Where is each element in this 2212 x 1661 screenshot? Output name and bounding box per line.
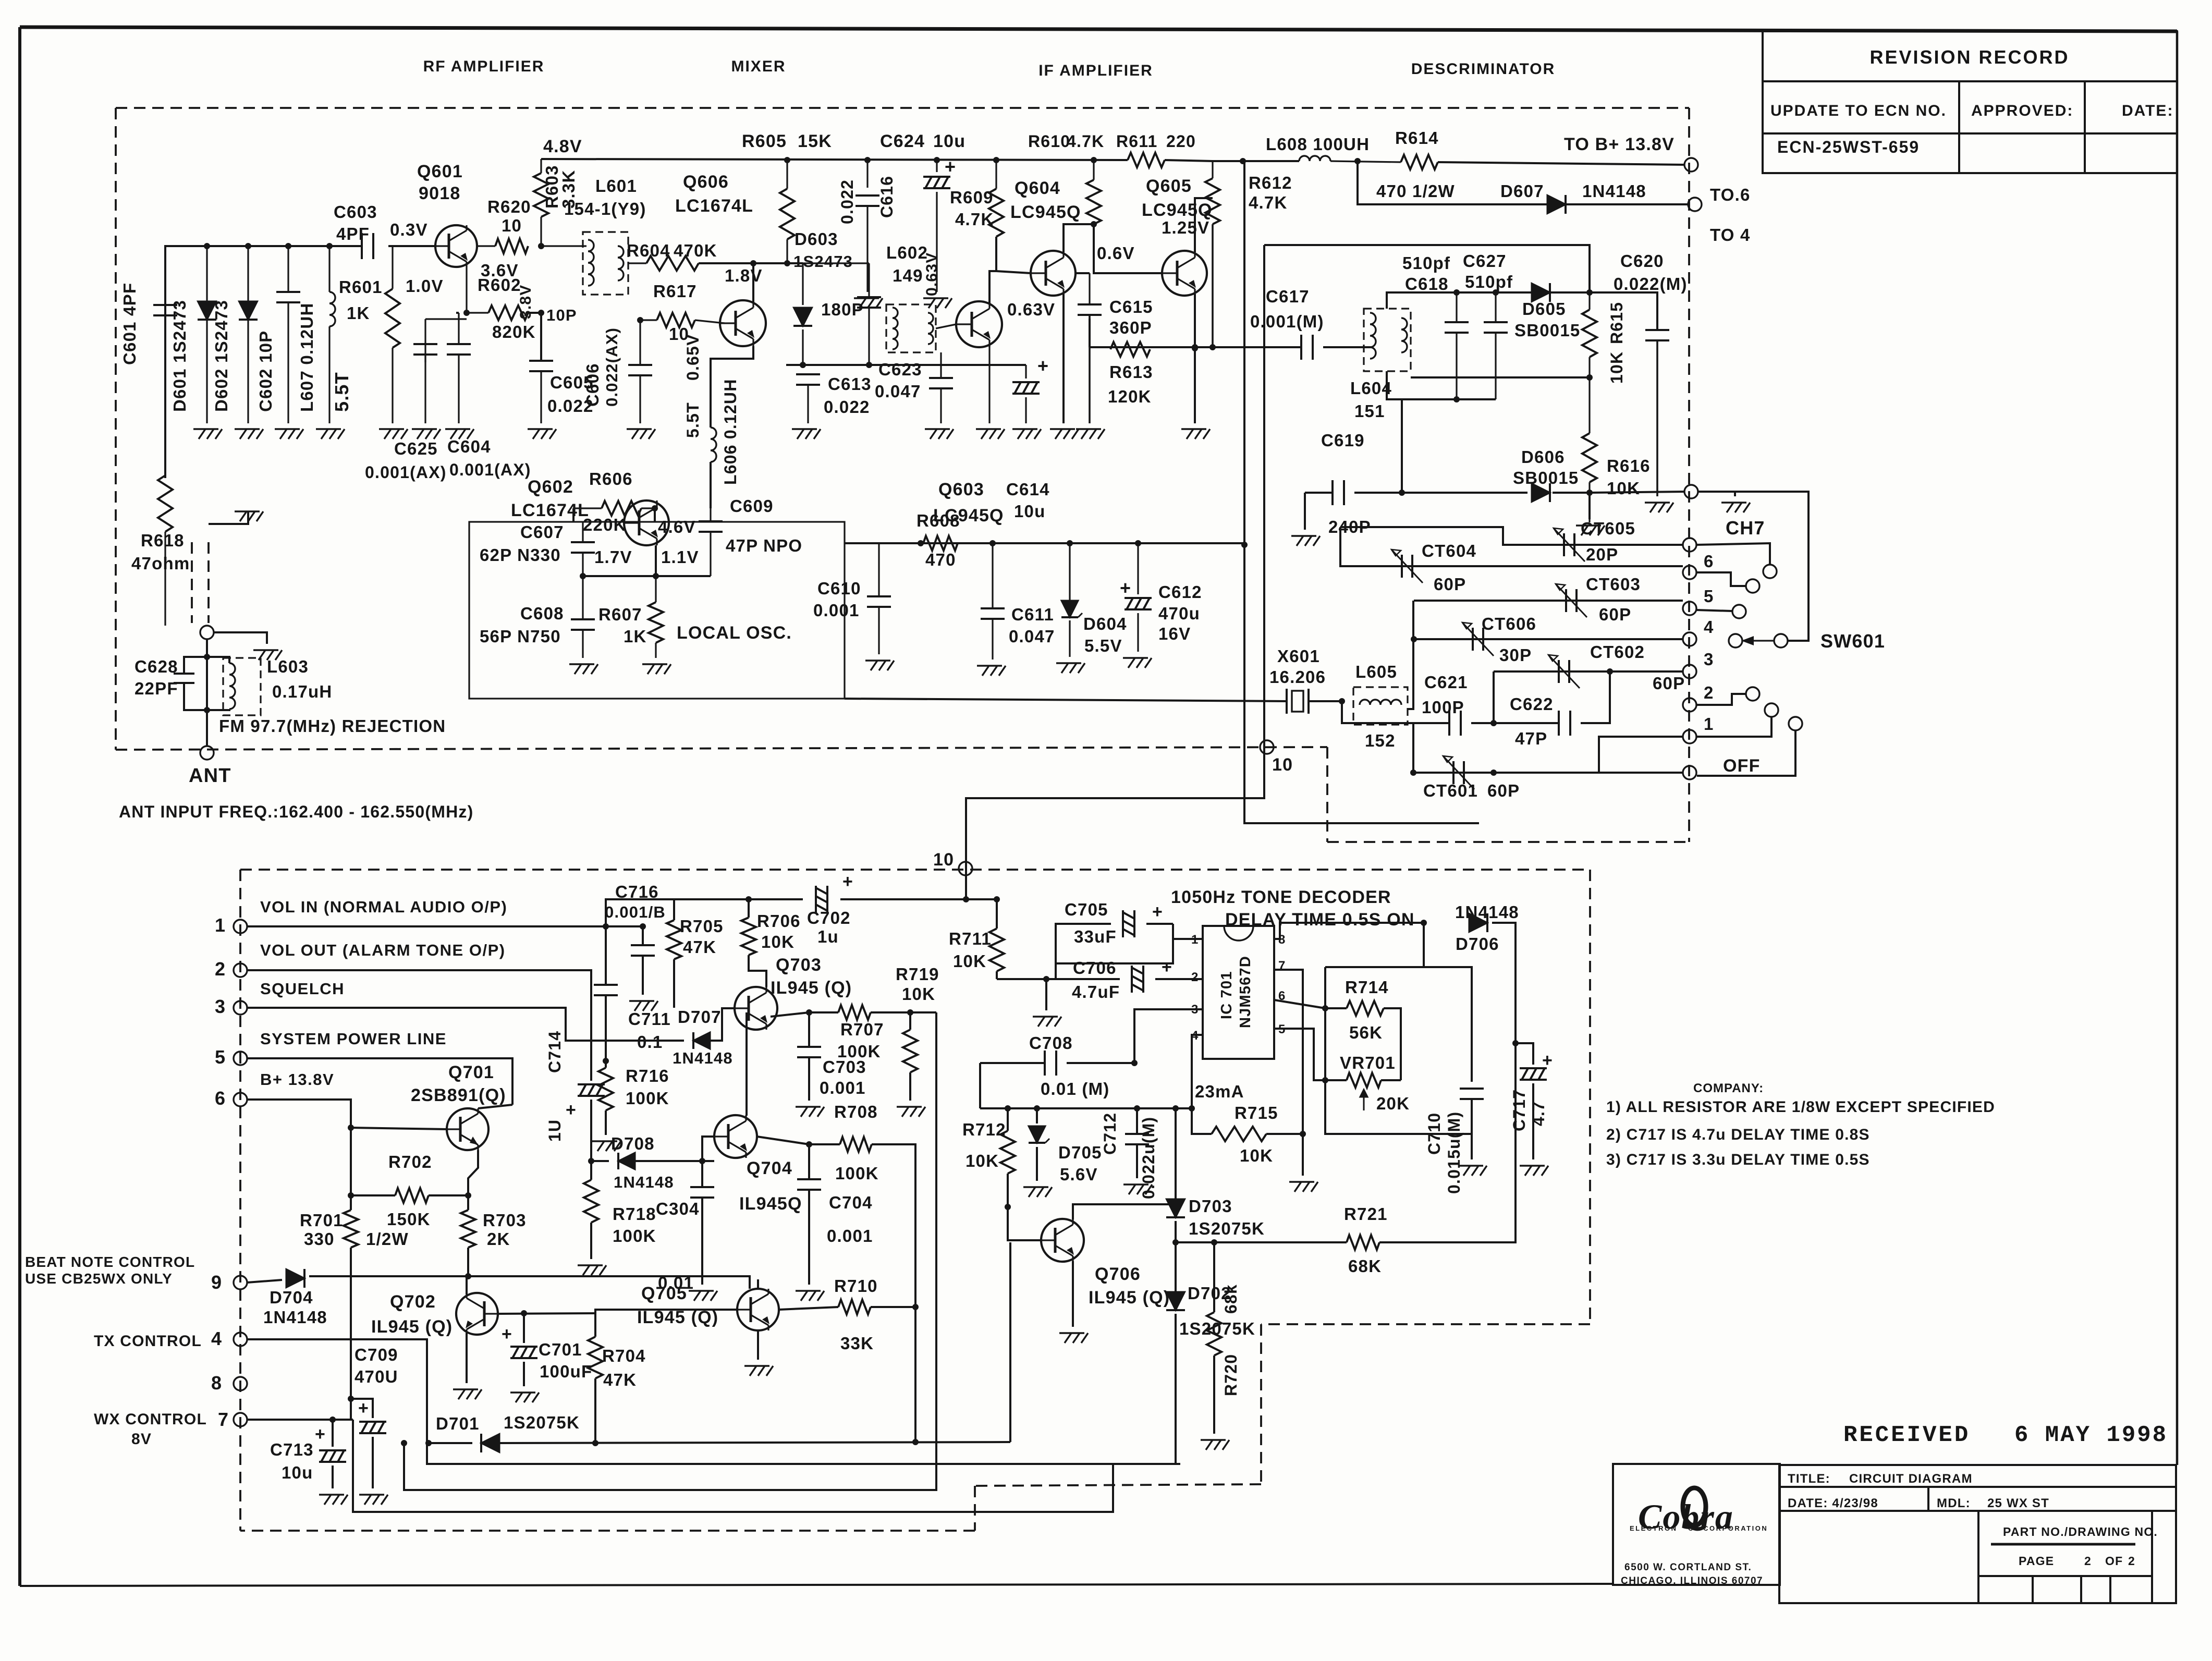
wire SYSTEM POWER LINE [247, 1058, 512, 1105]
ground for C713 [319, 1495, 348, 1505]
capacitor C621 [1413, 722, 1449, 724]
svg-text:10K: 10K [1240, 1146, 1273, 1165]
svg-text:VOL OUT (ALARM TONE O/P): VOL OUT (ALARM TONE O/P) [260, 941, 506, 959]
svg-text:0.022(AX): 0.022(AX) [603, 327, 621, 407]
ground for D602 [235, 429, 263, 439]
transistor Q702 [456, 1293, 498, 1335]
title block [1613, 1464, 2176, 1603]
svg-text:47ohm: 47ohm [131, 554, 190, 573]
svg-text:10u: 10u [933, 131, 966, 151]
ground for C611 [977, 666, 1006, 676]
transformer L604 [1364, 309, 1411, 371]
svg-text:C602 10P: C602 10P [256, 331, 275, 412]
svg-text:0.65V: 0.65V [683, 334, 702, 381]
svg-text:C625: C625 [394, 439, 438, 458]
capacitor C716 [642, 926, 644, 945]
resistor R710 [779, 1307, 838, 1310]
sw outer contact 2 [1696, 694, 1745, 705]
transistor Q605 [1162, 251, 1207, 296]
wire D701 bus riser [1009, 1242, 1011, 1442]
resistor R615 [1588, 292, 1590, 310]
svg-text:+: + [1542, 1051, 1553, 1070]
svg-text:47P NPO: 47P NPO [726, 536, 802, 555]
resistor R612 [1212, 161, 1213, 178]
resistor R610 [1093, 160, 1094, 180]
svg-text:1N4148: 1N4148 [1455, 902, 1519, 922]
svg-text:R711: R711 [949, 929, 992, 948]
diode D601 [206, 246, 207, 423]
ground for C704 [796, 1291, 824, 1301]
svg-text:Q702: Q702 [390, 1292, 436, 1312]
svg-text:4.7K: 4.7K [1249, 193, 1288, 212]
resistor R716 [598, 1068, 613, 1110]
capacitor C608 [582, 576, 583, 619]
svg-text:1.25V: 1.25V [1162, 218, 1209, 237]
resistor R602 [467, 312, 488, 313]
connector pin 1 VOL IN (NORMAL AUDIO O/P) [234, 920, 247, 933]
diode D605 [1532, 283, 1550, 301]
svg-text:Q704: Q704 [747, 1158, 792, 1178]
svg-text:WX CONTROL: WX CONTROL [94, 1411, 207, 1428]
svg-text:L607 0.12UH: L607 0.12UH [297, 303, 316, 412]
ground for C614 [1012, 429, 1041, 439]
resistor R708 [809, 1143, 840, 1145]
resistor R704 [594, 1313, 596, 1337]
svg-text:R601: R601 [339, 277, 383, 297]
wire pin7 line [247, 1419, 353, 1421]
resistor R604 [628, 262, 646, 264]
svg-text:0.001(M): 0.001(M) [1250, 312, 1324, 331]
sw outer contact OFF [1697, 731, 1795, 776]
inductor L607 [328, 246, 330, 292]
transistor Q706 [1041, 1219, 1084, 1262]
wire Q702 bottom lead [466, 1333, 468, 1383]
diode D703 [1175, 1108, 1177, 1199]
capacitor C611 [992, 543, 993, 608]
discriminator box top [1264, 245, 1590, 292]
svg-text:Q606: Q606 [683, 172, 729, 192]
svg-text:LC945Q: LC945Q [1010, 202, 1081, 222]
ground for C610 [865, 661, 894, 670]
trimmer CT601 [1452, 761, 1455, 784]
local oscillator box [469, 522, 845, 699]
svg-text:D604: D604 [1083, 614, 1127, 633]
svg-text:C709: C709 [355, 1345, 398, 1364]
resistor R609 [995, 160, 997, 189]
terminal 1 [1683, 730, 1696, 743]
terminal 6 [1683, 566, 1696, 579]
power rail 4.8V [541, 159, 1128, 160]
svg-text:IL945 (Q): IL945 (Q) [771, 978, 852, 998]
svg-text:33uF: 33uF [1074, 927, 1117, 946]
wire Q705 emitter [757, 1330, 759, 1360]
connector pin 5 SYSTEM POWER LINE [234, 1052, 247, 1065]
transistor Q701 2SB891 [447, 1108, 488, 1150]
capacitor C710 [1460, 1088, 1484, 1090]
capacitor C703 [808, 1012, 810, 1047]
svg-text:REVISION RECORD: REVISION RECORD [1869, 46, 2069, 68]
feedback box [1325, 967, 1472, 968]
svg-text:C604: C604 [447, 437, 491, 456]
node L608 out [1354, 158, 1361, 164]
svg-text:0.17uH: 0.17uH [272, 682, 332, 701]
svg-text:C606: C606 [583, 363, 602, 407]
svg-text:10K: 10K [761, 932, 795, 951]
svg-text:R615: R615 [1607, 302, 1626, 344]
svg-text:5.5T: 5.5T [683, 402, 702, 438]
svg-text:D601 1S2473: D601 1S2473 [170, 300, 189, 412]
ground for C623 [925, 429, 954, 439]
diode D606 [1532, 483, 1550, 502]
wire squelch bus vertical [935, 1012, 937, 1490]
svg-text:2K: 2K [487, 1229, 510, 1249]
wire CT606 row [1414, 638, 1683, 640]
svg-text:0.001(AX): 0.001(AX) [365, 463, 447, 482]
ground for Q605 [1181, 429, 1210, 439]
svg-text:510pf: 510pf [1402, 253, 1450, 273]
svg-text:L601: L601 [595, 176, 637, 196]
svg-text:R602: R602 [478, 275, 521, 295]
svg-text:L603: L603 [267, 657, 309, 676]
svg-text:4.7K: 4.7K [955, 210, 994, 229]
svg-text:100K: 100K [613, 1226, 656, 1245]
svg-text:X601: X601 [1277, 646, 1320, 666]
terminal 3 [1683, 665, 1696, 678]
ground for C608 [569, 664, 598, 674]
svg-text:D704: D704 [270, 1288, 313, 1307]
ground for C613 [792, 429, 821, 439]
crystal X601 [1286, 689, 1288, 714]
transistor Q603 [956, 301, 1002, 347]
svg-text:LC1674L: LC1674L [511, 500, 589, 520]
diode D706 [1469, 913, 1487, 932]
capacitor C617 [1300, 335, 1302, 360]
svg-text:4.7: 4.7 [1529, 1101, 1548, 1126]
resistor R715 [1192, 1108, 1212, 1134]
svg-text:120K: 120K [1108, 387, 1152, 406]
svg-text:C627: C627 [1463, 251, 1507, 271]
terminal 4 [1683, 632, 1696, 646]
resistor R607 [655, 576, 656, 602]
svg-text:+: + [358, 1398, 369, 1418]
svg-text:1N4148: 1N4148 [614, 1173, 674, 1191]
transistor Q705 [737, 1289, 779, 1330]
svg-text:DATE: 4/23/98: DATE: 4/23/98 [1788, 1496, 1878, 1510]
svg-text:220K: 220K [583, 515, 627, 534]
svg-text:10K: 10K [1607, 479, 1640, 498]
wire Q601 emitter [466, 267, 467, 313]
wire Q703 emitter to R707 [771, 1012, 809, 1017]
svg-text:IF AMPLIFIER: IF AMPLIFIER [1038, 62, 1153, 79]
wire pin9 line [247, 1280, 282, 1283]
svg-text:2) C717 IS 4.7u DELAY TIME 0.8: 2) C717 IS 4.7u DELAY TIME 0.8S [1606, 1126, 1870, 1143]
svg-text:CT602: CT602 [1590, 642, 1645, 662]
page border frame [20, 27, 2177, 31]
wire B+ line [247, 1100, 351, 1210]
svg-text:330: 330 [304, 1229, 335, 1249]
resistor R714 [1274, 1000, 1325, 1008]
svg-text:0.001: 0.001 [827, 1226, 873, 1245]
ground for C620 [1645, 503, 1673, 512]
wire D606 to R616 [1553, 492, 1590, 494]
svg-text:1/2W: 1/2W [366, 1229, 409, 1249]
ground for C612 [1123, 658, 1152, 668]
svg-text:R703: R703 [483, 1211, 527, 1230]
svg-text:ECN-25WST-659: ECN-25WST-659 [1777, 138, 1920, 156]
capacitor C627 [1495, 292, 1496, 322]
svg-text:C621: C621 [1424, 673, 1468, 692]
svg-text:15K: 15K [798, 131, 832, 151]
wire L604 secondary mid [1411, 376, 1590, 378]
svg-text:R620: R620 [487, 197, 531, 216]
ground for R601 [379, 429, 408, 439]
svg-text:0.022: 0.022 [824, 397, 870, 417]
capacitor C619 [1305, 492, 1333, 494]
resistor R719 [909, 1012, 911, 1030]
capacitor C601 [153, 304, 177, 306]
ground for R616 [1588, 493, 1591, 519]
svg-text:D708: D708 [611, 1134, 655, 1153]
svg-text:1S2075K: 1S2075K [1189, 1219, 1265, 1238]
node D605 out [1586, 289, 1593, 296]
wire discriminator left edge down [966, 245, 1264, 899]
svg-text:R715: R715 [1235, 1103, 1278, 1122]
svg-text:C616: C616 [877, 176, 896, 218]
wire to B+ terminal [1438, 162, 1684, 165]
svg-text:0.047: 0.047 [875, 382, 921, 401]
svg-text:R706: R706 [757, 911, 801, 931]
svg-text:R721: R721 [1344, 1204, 1388, 1224]
transformer L602 [886, 304, 936, 352]
svg-text:R705: R705 [680, 917, 724, 936]
capacitor C625 [424, 319, 426, 362]
svg-text:10u: 10u [1014, 502, 1045, 521]
wire local osc output [845, 699, 1287, 701]
wire L604 top to peak line [1387, 292, 1590, 309]
capacitor C628 [184, 657, 207, 674]
svg-text:PART NO./DRAWING NO.: PART NO./DRAWING NO. [2003, 1525, 2158, 1538]
svg-text:R614: R614 [1395, 128, 1439, 148]
svg-text:30P: 30P [1499, 645, 1532, 665]
resistor R605 [786, 160, 788, 189]
wire SQUELCH line [247, 1008, 684, 1041]
ground for C604 [445, 429, 474, 439]
svg-text:60P: 60P [1599, 605, 1631, 624]
wire Q701 base [351, 1128, 447, 1129]
svg-text:9: 9 [211, 1272, 222, 1293]
terminal discriminator out [1684, 485, 1698, 498]
svg-text:2: 2 [2084, 1554, 2092, 1568]
svg-text:TO B+ 13.8V: TO B+ 13.8V [1564, 135, 1675, 154]
svg-text:Q705: Q705 [641, 1284, 687, 1303]
wire IC pin8 to D706 [1274, 923, 1424, 939]
svg-text:D603: D603 [795, 229, 838, 249]
capacitor C712 [1136, 1108, 1138, 1134]
capacitor C603 [361, 233, 363, 259]
svg-text:PAGE: PAGE [2019, 1554, 2054, 1568]
svg-text:100uF: 100uF [540, 1362, 592, 1381]
wire Q701 collector [468, 1150, 478, 1195]
svg-text:C705: C705 [1065, 900, 1108, 919]
resistor R721 [1176, 1241, 1214, 1243]
inductor L603 trap [223, 658, 261, 715]
resistor R601 [392, 246, 393, 289]
svg-text:C713: C713 [270, 1440, 314, 1459]
wire R707 junction to vertical [910, 1011, 936, 1013]
wire Q706 base [1008, 1207, 1041, 1240]
trimmer CT603 [1565, 589, 1567, 612]
svg-text:SYSTEM POWER LINE: SYSTEM POWER LINE [260, 1030, 447, 1048]
wire pin7 ground leg [1274, 970, 1303, 1176]
svg-text:16.206: 16.206 [1269, 667, 1326, 687]
node crystal out [1339, 698, 1345, 704]
svg-text:10: 10 [933, 850, 954, 870]
diode D707 [693, 1032, 710, 1049]
wire L602 to Q603 base [936, 324, 956, 328]
svg-text:R616: R616 [1607, 456, 1651, 475]
wire Q704 out to R708 [757, 1137, 809, 1144]
svg-text:C614: C614 [1006, 480, 1050, 499]
svg-text:D705: D705 [1058, 1143, 1102, 1162]
transistor Q601 [435, 225, 477, 267]
svg-text:ELECTRON: ELECTRON [1630, 1524, 1678, 1532]
wire terminal1 riser [1599, 737, 1683, 773]
svg-text:0.6V: 0.6V [1097, 243, 1135, 263]
svg-text:4: 4 [211, 1328, 222, 1349]
svg-text:C612: C612 [1158, 582, 1202, 602]
capacitor C618 [1456, 292, 1457, 322]
capacitor C606 [639, 320, 641, 365]
svg-text:CT603: CT603 [1586, 575, 1641, 594]
trimmer CT602 [1558, 660, 1560, 683]
capacitor C706 electrolytic [1132, 966, 1143, 993]
ground for R718 [578, 1265, 606, 1275]
svg-text:COMPANY:: COMPANY: [1693, 1081, 1764, 1095]
capacitor C623 [940, 352, 942, 378]
svg-text:MDL:: MDL: [1937, 1496, 1971, 1510]
wire R608 rail [845, 542, 1244, 544]
svg-text:220: 220 [1166, 132, 1196, 151]
svg-text:Q706: Q706 [1095, 1264, 1141, 1284]
svg-text:R611: R611 [1116, 132, 1158, 151]
wire Q604 collector [1064, 224, 1094, 252]
resistor R611 [1128, 153, 1165, 167]
ground for C716 [629, 1001, 658, 1011]
zener diode D705 [1036, 1108, 1038, 1123]
connector pin 4 TX CONTROL [234, 1333, 247, 1346]
svg-text:C717: C717 [1510, 1089, 1529, 1131]
svg-text:1: 1 [1704, 714, 1714, 734]
svg-text:470U: 470U [355, 1367, 398, 1386]
ground for Q603 [976, 429, 1005, 439]
svg-text:OF: OF [2105, 1554, 2123, 1568]
svg-text:CHICAGO, ILLINOIS 60707: CHICAGO, ILLINOIS 60707 [1621, 1575, 1763, 1586]
svg-text:+: + [566, 1100, 577, 1120]
wire R705 top to audio line [674, 899, 749, 910]
svg-text:1050Hz TONE DECODER: 1050Hz TONE DECODER [1171, 887, 1391, 907]
svg-text:D703: D703 [1189, 1196, 1232, 1216]
wire Q605 collector to rail [1195, 198, 1213, 252]
svg-text:0.001/B: 0.001/B [605, 903, 666, 921]
wire SW601 common to discriminator [1698, 492, 1808, 641]
svg-text:R720: R720 [1221, 1354, 1240, 1396]
svg-text:1K: 1K [347, 303, 370, 323]
svg-text:C304: C304 [656, 1199, 700, 1218]
resistor R614 [1330, 161, 1401, 162]
svg-text:360P: 360P [1109, 318, 1152, 337]
svg-text:+: + [1152, 902, 1163, 922]
svg-text:LOCAL OSC.: LOCAL OSC. [677, 623, 792, 643]
capacitor C717 electrolytic [1516, 1043, 1533, 1065]
svg-text:R606: R606 [589, 469, 633, 488]
capacitor C711 [605, 926, 607, 985]
svg-text:Q601: Q601 [417, 162, 463, 181]
svg-text:L608 100UH: L608 100UH [1266, 135, 1370, 154]
terminal 5 [1683, 602, 1696, 615]
resistor R718 [584, 1180, 598, 1223]
svg-text:Q703: Q703 [776, 955, 822, 975]
svg-text:9018: 9018 [419, 184, 460, 203]
capacitor C620 [1590, 292, 1657, 330]
ground for C712 [1123, 1184, 1152, 1194]
svg-text:C623: C623 [878, 360, 922, 379]
resistor R711 [996, 899, 998, 929]
wire Q603 collector to R609 [989, 237, 996, 303]
revision record table [1763, 31, 2177, 173]
capacitor C602 [287, 246, 289, 292]
svg-text:149: 149 [893, 266, 923, 285]
svg-text:1S2473: 1S2473 [793, 252, 853, 271]
svg-text:R617: R617 [653, 282, 697, 301]
connector pin 9 [234, 1276, 247, 1289]
svg-text:6 MAY 1998: 6 MAY 1998 [2014, 1422, 2168, 1448]
svg-text:D606: D606 [1521, 447, 1565, 467]
wire R710 node down [914, 1307, 916, 1442]
transistor Q704 [714, 1115, 757, 1158]
wire Q605 emitter [1194, 294, 1196, 423]
svg-text:820K: 820K [492, 322, 536, 341]
svg-text:1N4148: 1N4148 [263, 1308, 327, 1327]
wire Q604 emitter [1062, 294, 1065, 423]
inductor L606 [711, 346, 753, 428]
svg-text:C714: C714 [545, 1031, 564, 1073]
svg-text:OFF: OFF [1723, 756, 1761, 776]
wire CT604 row [1340, 527, 1683, 566]
sw common contacts [1729, 634, 1742, 648]
svg-text:R612: R612 [1249, 173, 1292, 192]
svg-text:0.047: 0.047 [1009, 627, 1055, 646]
svg-text:470K: 470K [674, 241, 717, 260]
svg-text:56K: 56K [1349, 1023, 1383, 1042]
transformer L601 [583, 232, 628, 295]
svg-text:R718: R718 [613, 1204, 656, 1224]
svg-text:60P: 60P [1434, 575, 1466, 594]
capacitor C615 [1089, 160, 1090, 304]
svg-text:152: 152 [1365, 731, 1396, 750]
sw outer contact 5 [1696, 610, 1732, 611]
svg-text:D607: D607 [1500, 181, 1544, 201]
svg-text:7: 7 [218, 1409, 229, 1430]
svg-text:5.6V: 5.6V [1060, 1165, 1098, 1184]
svg-text:SB0015: SB0015 [1513, 468, 1579, 487]
svg-text:C704: C704 [829, 1193, 873, 1212]
svg-text:+: + [502, 1324, 512, 1344]
ground for R716 [592, 1141, 621, 1151]
svg-text:SQUELCH: SQUELCH [260, 980, 345, 998]
wire mixer lower rail [800, 362, 806, 368]
capacitor C705 electrolytic [1173, 938, 1203, 940]
svg-text:60P: 60P [1653, 674, 1685, 693]
